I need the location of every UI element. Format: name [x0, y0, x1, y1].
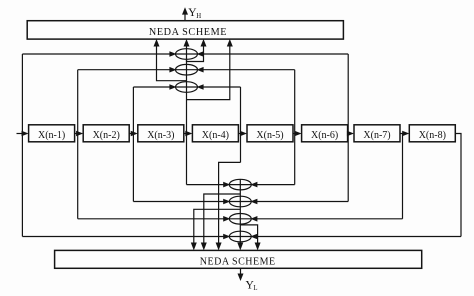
block bottom NEDA SCHEME: [55, 250, 422, 268]
svg-text:X(n-6): X(n-6): [311, 130, 338, 141]
svg-text:NEDA SCHEME: NEDA SCHEME: [149, 27, 227, 38]
wire X(n-4) tap vertical upper: [240, 87, 242, 162]
svg-text:X(n-3): X(n-3): [147, 130, 174, 141]
wire input tap vertical: [21, 54, 23, 237]
wire X(n-2) tap vertical: [132, 87, 134, 202]
wire elbow under A1 to output column: [187, 39, 207, 62]
register X(n-7): [354, 125, 400, 142]
register X(n-6): [302, 125, 348, 142]
wire X(n-5) tap vertical: [294, 70, 296, 185]
wire A3 output elbow to NEDA: [187, 39, 233, 100]
wire elbow under B2 to bottom NEDA: [191, 209, 241, 250]
wire top adder chain vertical with arrow into NEDA: [184, 39, 190, 185]
register X(n-8): [409, 125, 455, 142]
svg-text:H: H: [196, 13, 201, 20]
wire adder A1 left input from input tap: [22, 51, 176, 57]
wire X(n-5) to X(n-6): [293, 131, 302, 137]
wire adder A3 left input from X(n-2) tap: [133, 84, 176, 90]
node YH output arrow: [182, 7, 201, 21]
wire A2 output elbow to NEDA: [154, 39, 187, 81]
wire adder A2 right input from X(n-5) tap: [197, 67, 295, 73]
adder B2: [229, 196, 251, 207]
wire X(n-8) output tap: [455, 134, 461, 237]
wire adder B4 right input from X(n-8) output: [250, 234, 461, 240]
adder A1 top: [176, 49, 198, 60]
wire adder A2 left input from X(n-1) tap: [78, 67, 177, 73]
wire adder B3 right input from X(n-7) tap: [250, 216, 402, 222]
svg-text:L: L: [253, 285, 257, 292]
wire X(n-3) to X(n-4): [184, 131, 193, 137]
svg-text:X(n-4): X(n-4): [202, 130, 229, 141]
register X(n-4): [192, 125, 238, 142]
svg-text:X(n-1): X(n-1): [38, 130, 65, 141]
svg-text:X(n-2): X(n-2): [93, 130, 120, 141]
adder A2 middle: [176, 64, 198, 75]
register X(n-1): [29, 125, 75, 142]
svg-text:X(n-8): X(n-8): [419, 130, 446, 141]
svg-text:X(n-7): X(n-7): [363, 130, 390, 141]
wire X(n-1) tap vertical: [77, 70, 79, 219]
register X(n-2): [83, 125, 129, 142]
block top NEDA SCHEME: [27, 21, 343, 39]
wire X(n-6) tap vertical: [347, 54, 349, 202]
adder B3: [229, 214, 251, 225]
adder B1 top bottom-group: [229, 179, 251, 190]
wire X(n-1) to X(n-2): [75, 131, 84, 137]
wire adder B1 right input from X(n-5) tap: [250, 182, 294, 188]
wire adder B3 left input from X(n-1) tap: [78, 216, 231, 222]
wire adder A1 right input from X(n-6) tap: [197, 51, 349, 57]
wire X(n-4) to X(n-5): [238, 131, 247, 137]
wire X(n-7) to X(n-8): [400, 131, 409, 137]
wire adder B2 left input from X(n-2) tap: [133, 199, 230, 205]
wire adder B2 right input from X(n-6) tap: [250, 199, 348, 205]
wire adder B4 left input from input tap: [22, 234, 230, 240]
adder B4: [229, 231, 251, 242]
register X(n-3): [138, 125, 184, 142]
wire adder A3 right input from X(n-4) tap: [197, 84, 241, 90]
adder A3 bottom: [176, 82, 198, 93]
wire bottom adder chain vertical with arrow into bottom NEDA: [237, 179, 243, 250]
wire X(n-6) to X(n-7): [347, 131, 354, 137]
svg-text:NEDA SCHEME: NEDA SCHEME: [200, 256, 276, 267]
node YL output arrow: [238, 268, 258, 292]
wire bypass X(n-4) tap jog down to bottom NEDA: [216, 162, 241, 250]
register X(n-5): [247, 125, 293, 142]
wire X(n-7) tap vertical: [402, 134, 404, 219]
wire elbow under B1 to bottom NEDA: [201, 194, 241, 250]
wire input arrow x(n): [17, 131, 29, 137]
svg-text:X(n-5): X(n-5): [256, 130, 283, 141]
wire X(n-2) to X(n-3): [129, 131, 138, 137]
wire adder B1 left input from chain corner: [187, 182, 231, 188]
wire elbow under B3 to bottom NEDA: [240, 225, 260, 251]
